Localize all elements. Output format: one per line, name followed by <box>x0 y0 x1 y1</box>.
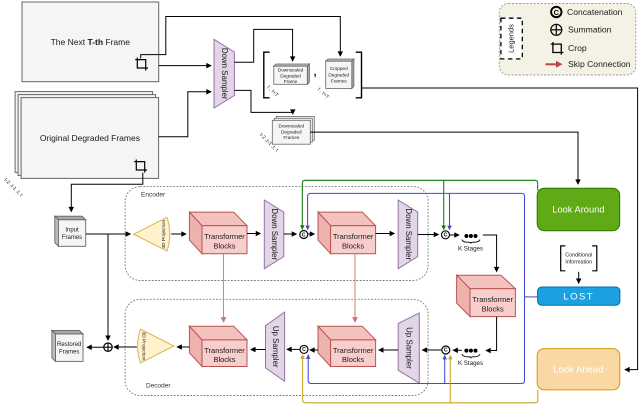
label t,t+T (rotated) for Downscaled Degraded Frame <box>266 85 280 99</box>
svg-text:Up Sampler: Up Sampler <box>271 326 280 368</box>
wire: Original Degraded Frames to DS1 <box>159 92 211 137</box>
legend: Legends label <box>501 18 522 59</box>
green wire: Look Around to C1 <box>302 180 537 229</box>
wire: decoder dots to concat C3 <box>453 349 462 351</box>
wire: decoder cone to summation <box>114 346 137 348</box>
wire: summation to Restored Frames <box>87 346 104 348</box>
orange wire: Look Ahead to C4 <box>303 355 538 403</box>
svg-text:K Stages: K Stages <box>458 360 483 367</box>
encoder container <box>125 187 428 281</box>
svg-text:Legends: Legends <box>507 24 516 53</box>
svg-text:Conditional: Conditional <box>565 253 592 259</box>
cone: 3D Projection (decoder) <box>138 329 174 363</box>
box: The Next T-th Frame <box>22 2 159 82</box>
svg-text:The Next T-th Frame: The Next T-th Frame <box>51 37 131 47</box>
crop icon on The Next T-th Frame <box>135 58 148 71</box>
stack: Original Degraded Frames <box>15 92 159 179</box>
svg-text:Skip Connection: Skip Connection <box>568 59 631 69</box>
box: Cropped Degraded Frames <box>326 59 354 89</box>
svg-text:Look Around: Look Around <box>552 205 604 215</box>
box: Input Frames <box>55 216 86 246</box>
legend: skip connection arrow <box>546 61 563 68</box>
concat node C1 <box>300 231 308 239</box>
up sampler US2 <box>398 313 419 383</box>
label t-2,t-1,t,t (rotated) for Downscaled Degraded Frames <box>258 132 279 153</box>
transformer blocks TB3 (decoder left) <box>189 326 247 366</box>
wire: TB4 to concat C4 <box>310 349 318 351</box>
wire: DS1 bottom output to Downscaled Degraded Frames stack <box>234 90 292 114</box>
orange wire: branch up to C3 <box>449 356 451 403</box>
concat node C2 <box>442 231 450 239</box>
wire: ODF crop down to Input Frames <box>71 173 143 212</box>
svg-text:Downscaled: Downscaled <box>278 68 304 73</box>
svg-text:Frames: Frames <box>283 135 300 140</box>
svg-text:Down Sampler: Down Sampler <box>270 208 279 260</box>
transformer blocks TB2 (encoder) <box>318 212 376 254</box>
wire: C2 to K stages dots <box>450 234 459 236</box>
wire: US1 to TB3 <box>251 349 266 351</box>
svg-text:Decoder: Decoder <box>146 383 171 390</box>
wire: crop of next frame to Cropped Degraded Frames <box>141 17 341 59</box>
svg-text:Crop: Crop <box>568 43 587 53</box>
svg-text:Input: Input <box>65 228 79 234</box>
wire: Downscaled Degraded Frames stack to Look Around <box>310 132 578 184</box>
wire: C3 to Up Sampler US2 <box>422 349 441 351</box>
svg-text:Degraded: Degraded <box>280 73 301 78</box>
box: Look Ahead <box>537 349 620 390</box>
svg-text:Transformer: Transformer <box>333 346 374 355</box>
concat node C3 <box>442 346 450 354</box>
svg-text:Downscaled: Downscaled <box>279 124 305 129</box>
K stages dots (encoder) <box>462 234 480 244</box>
svg-text:Blocks: Blocks <box>342 355 364 364</box>
green wire: branch to C2 <box>443 180 445 229</box>
svg-text:C: C <box>444 347 448 353</box>
transformer blocks TB1 (encoder) <box>189 212 247 254</box>
svg-text:Up Sampler: Up Sampler <box>405 327 414 369</box>
concat node C4 <box>300 345 308 353</box>
blue wire: branch down to C2 <box>449 193 451 229</box>
svg-text:3D Projection: 3D Projection <box>161 219 167 248</box>
svg-text:Frames: Frames <box>59 350 79 356</box>
wire: C4 to Up Sampler US1 <box>287 348 300 350</box>
svg-text:C: C <box>554 8 560 17</box>
svg-text:Down Sampler: Down Sampler <box>404 208 413 260</box>
svg-text:K Stages: K Stages <box>458 246 483 253</box>
down sampler DS3 <box>398 200 418 269</box>
svg-text:Transformer: Transformer <box>204 232 245 241</box>
svg-text:Restored: Restored <box>57 342 81 348</box>
legend: concatenation icon <box>551 7 561 17</box>
svg-text:Information: Information <box>565 260 592 266</box>
svg-text:Blocks: Blocks <box>213 355 235 364</box>
svg-text:Down Sampler: Down Sampler <box>220 48 229 100</box>
svg-text:Summation: Summation <box>568 24 612 34</box>
wire: C1 to TB2 <box>308 233 314 235</box>
down sampler DS1 <box>214 39 234 108</box>
wire: dots to middle transformer blocks <box>483 235 497 272</box>
svg-text:Blocks: Blocks <box>213 241 235 250</box>
label t,t+T (rotated) for Cropped Degraded Frames <box>316 87 330 101</box>
wire: branch down to summation <box>107 234 109 340</box>
blue wire: LOST down to C4 <box>308 297 524 384</box>
svg-text:Degraded: Degraded <box>328 72 349 77</box>
decoder container <box>125 299 428 395</box>
svg-text:Frames: Frames <box>331 79 348 84</box>
box: Downscaled Degraded Frame <box>274 64 310 84</box>
wire: cone to Transformer Blocks TB1 <box>171 233 186 235</box>
box: LOST <box>538 287 620 305</box>
wire: The Next T-th Frame to DS1 <box>159 65 211 67</box>
legend: crop icon <box>551 42 564 55</box>
legend box <box>499 4 636 76</box>
legend: summation icon <box>551 24 562 35</box>
svg-text:Look Ahead: Look Ahead <box>553 365 603 376</box>
svg-text:Frame: Frame <box>284 79 298 84</box>
wire: bracket output to Look Ahead <box>362 88 638 370</box>
wire: TB-mid to decoder dots <box>486 317 497 351</box>
transformer blocks TB4 (decoder right) <box>318 326 376 366</box>
wire: DS3 to concat C2 <box>418 234 439 236</box>
wire: DS2 to concat C1 <box>284 233 297 235</box>
blue wire: branch up to C3 <box>444 356 446 384</box>
wire: TB3 to decoder cone <box>177 346 189 348</box>
svg-text:Transformer: Transformer <box>472 295 513 304</box>
svg-text:Original Degraded Frames: Original Degraded Frames <box>40 133 140 143</box>
svg-text:Transformer: Transformer <box>204 346 245 355</box>
box: Look Around <box>537 188 620 231</box>
svg-text:C: C <box>302 232 306 238</box>
down sampler DS2 <box>264 200 284 269</box>
svg-text:C: C <box>444 233 448 239</box>
wire: DS1 top output to Downscaled Degraded Frame <box>234 29 292 62</box>
summation node <box>104 343 112 351</box>
K stages dots (decoder) <box>462 349 480 359</box>
skip connection TB1 to TB3 <box>223 254 225 322</box>
bracket right of Cropped Degraded Frames <box>356 52 362 98</box>
svg-text:t , t+T: t , t+T <box>266 85 280 99</box>
wire: TB1 to DS2 <box>247 233 260 235</box>
crop icon on Original Degraded Frames <box>134 160 147 173</box>
transformer blocks TB-mid (between stages) <box>457 275 516 316</box>
svg-text:Blocks: Blocks <box>482 304 504 313</box>
stack: Downscaled Degraded Frames <box>272 116 314 144</box>
svg-text:C: C <box>302 347 306 353</box>
wire: TB2 to DS3 <box>376 233 395 235</box>
svg-text:Cropped: Cropped <box>330 66 348 71</box>
cone: 3D Projection (encoder) <box>134 217 170 251</box>
bracket left of Downscaled Degraded Frame <box>264 52 270 98</box>
blue wire: LOST up to C1 <box>308 193 525 297</box>
up sampler US1 <box>266 312 285 381</box>
svg-text:LOST: LOST <box>563 292 594 303</box>
svg-text:Transformer: Transformer <box>333 232 374 241</box>
skip connection TB2 to TB4 <box>354 254 356 322</box>
svg-text:Concatenation: Concatenation <box>567 7 623 17</box>
svg-text:3D Projection: 3D Projection <box>141 332 147 361</box>
wire: US2 to TB4 <box>379 349 398 351</box>
wire: Input Frames to 3D Projection cone <box>86 233 130 235</box>
svg-text:Encoder: Encoder <box>141 192 166 199</box>
blue wire: LOST stub <box>525 296 538 298</box>
svg-text:t-2 ,t-1 ,t, t: t-2 ,t-1 ,t, t <box>3 177 24 198</box>
svg-text:,: , <box>314 67 317 79</box>
svg-text:Blocks: Blocks <box>342 241 364 250</box>
wire: Conditional Information to LOST <box>578 272 580 283</box>
svg-text:Frames: Frames <box>62 235 82 241</box>
label t-2,t-1,t,t (rotated) for Original Degraded Frames <box>3 177 24 198</box>
svg-text:Degraded: Degraded <box>281 129 302 134</box>
node: Conditional Information <box>561 246 597 271</box>
box: Restored Frames <box>52 330 83 361</box>
